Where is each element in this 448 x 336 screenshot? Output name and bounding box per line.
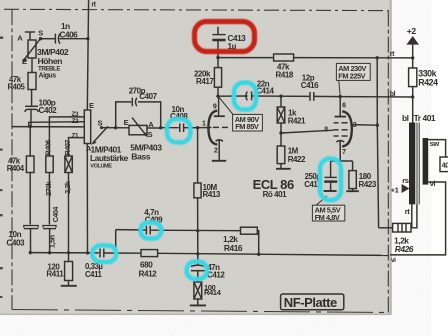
- potentiometer P402: [25, 31, 35, 33]
- arrow +1: [402, 184, 410, 193]
- wire to C408: [161, 127, 179, 129]
- capacitor C408: [179, 124, 181, 133]
- svg-text:Höhen: Höhen: [38, 56, 63, 66]
- wire input from frame to P401 lower tap: [12, 126, 84, 128]
- svg-text:2: 2: [214, 147, 218, 154]
- svg-text:bl: bl: [402, 113, 409, 123]
- svg-text:E: E: [89, 101, 94, 110]
- pentode cathode pin 7: [336, 141, 344, 142]
- wire anode row to C414: [218, 95, 248, 97]
- ground bar below C417: [324, 190, 337, 192]
- wiper arrow of P403: [132, 118, 146, 136]
- svg-text:R404: R404: [7, 164, 25, 173]
- pentode envelope: [342, 111, 352, 146]
- node R421/R422 junction: [279, 131, 282, 134]
- highlight cyan around C408: [167, 119, 190, 142]
- ground bar below R414: [190, 304, 206, 306]
- supply arrow +2: [406, 36, 419, 45]
- svg-text:Aigus: Aigus: [39, 72, 57, 79]
- node C402/R404 junction: [29, 125, 32, 128]
- svg-text:R412: R412: [139, 270, 158, 279]
- svg-text:R418: R418: [276, 71, 294, 80]
- resistor R405: [28, 73, 36, 90]
- svg-text:2,2k: 2,2k: [63, 181, 72, 194]
- svg-text:R411: R411: [46, 269, 64, 278]
- ground bar triode cathode: [212, 160, 226, 162]
- wire C416 to pentode anode node: [314, 95, 340, 97]
- svg-text:R417: R417: [196, 77, 214, 86]
- resistor R421 (x-type): [280, 96, 282, 107]
- svg-text:+2: +2: [407, 26, 417, 36]
- svg-text:E: E: [22, 57, 27, 66]
- resistor R423: [352, 161, 354, 171]
- svg-text:S: S: [148, 130, 153, 139]
- pentode grid g1 dashes: [334, 129, 339, 131]
- resistor R424: [412, 58, 414, 68]
- resistor R407 (x-type): [65, 156, 72, 173]
- highlight cyan around C412: [187, 262, 207, 279]
- potentiometer P403 body: [129, 125, 147, 134]
- svg-text:S: S: [98, 119, 103, 128]
- svg-text:Lautstärke: Lautstärke: [90, 153, 129, 163]
- wire wiper to bass network: [101, 127, 129, 129]
- label box NF-Platte: [281, 294, 344, 310]
- svg-text:Z2: Z2: [72, 118, 79, 125]
- capacitor C413: [217, 27, 219, 35]
- svg-text:R421: R421: [288, 117, 306, 126]
- svg-text:R407: R407: [63, 140, 72, 156]
- wire to R426: [379, 227, 393, 229]
- svg-text:C411: C411: [85, 270, 103, 279]
- bus line bottom: [30, 252, 99, 254]
- highlight cyan around C417: [320, 159, 341, 201]
- value box AM5,5V FM4,8V: [312, 196, 344, 222]
- ground bar below R423: [346, 190, 358, 192]
- potentiometer P401 body: [84, 110, 90, 144]
- svg-text:R405: R405: [8, 83, 26, 92]
- wire cathode tee: [331, 160, 353, 162]
- svg-text:C404: C404: [51, 207, 60, 223]
- svg-text:9: 9: [213, 104, 217, 111]
- svg-text:rs: rs: [402, 176, 409, 185]
- capacitor C414: [246, 92, 247, 101]
- feedback line vertical: [376, 58, 378, 125]
- capacitor C417: [330, 161, 332, 177]
- wire top row R418: [218, 57, 274, 59]
- svg-text:R423: R423: [359, 180, 377, 189]
- wire junction to C416: [281, 95, 309, 97]
- triode envelope: [208, 111, 217, 145]
- resistor R404: [26, 156, 34, 173]
- wire screen grid pin 3: [351, 124, 378, 127]
- highlight cyan around C411: [92, 245, 116, 262]
- capacitor C409: [145, 226, 147, 235]
- resistor R406: [46, 156, 53, 173]
- svg-text:FM 85V: FM 85V: [235, 122, 259, 131]
- resistor R412: [141, 250, 158, 257]
- svg-text:FM 225V: FM 225V: [338, 71, 365, 80]
- node R421 top junction: [279, 95, 282, 98]
- svg-text:C414: C414: [256, 86, 274, 95]
- svg-text:+1: +1: [391, 185, 400, 194]
- svg-text:R426: R426: [395, 244, 414, 254]
- svg-text:1: 1: [202, 121, 206, 128]
- wire bass loop top right side: [138, 102, 161, 128]
- capacitor C406: [54, 34, 56, 44]
- resistor R418: [274, 54, 294, 61]
- wire R404 column: [29, 127, 31, 156]
- svg-text:bl: bl: [390, 91, 396, 98]
- triode cathode pin 2: [216, 140, 223, 141]
- wire grid of triode: [198, 127, 212, 129]
- resistor R426 (striped): [393, 223, 411, 232]
- capacitor C412: [197, 254, 199, 265]
- svg-text:Tr 401: Tr 401: [414, 113, 436, 123]
- transformer Tr401 primary winding: [409, 123, 415, 205]
- node R413/C409 line crossing: [196, 229, 199, 232]
- node bus R413 junction: [196, 252, 199, 255]
- wire P402 to R405: [31, 58, 33, 73]
- triode grid dashes: [213, 126, 219, 128]
- speaker box 4 ohm: [440, 157, 448, 172]
- wire R413 column: [197, 128, 199, 183]
- node anode junction: [216, 95, 219, 98]
- wire bass loop left+top: [116, 102, 132, 128]
- node bass loop left junction: [114, 126, 117, 129]
- capacitor C403: [24, 226, 38, 228]
- svg-text:rt: rt: [405, 207, 411, 216]
- svg-text:vi: vi: [430, 179, 436, 188]
- wire C414 to junction: [252, 95, 281, 97]
- speaker wire sw: [428, 140, 445, 157]
- svg-text:Z1: Z1: [72, 133, 79, 140]
- wire to transformer primary: [412, 97, 414, 123]
- capacitor C416: [309, 92, 311, 101]
- wire tap Z3 of P401: [49, 117, 84, 156]
- svg-text:C402: C402: [39, 106, 58, 115]
- svg-text:sw: sw: [430, 139, 440, 148]
- node bus junctions: [29, 251, 32, 254]
- transformer core lines: [416, 123, 418, 205]
- svg-text:E: E: [124, 118, 129, 127]
- wiper arrow of P401: [93, 126, 108, 142]
- wire R405 to C402: [31, 90, 33, 106]
- svg-text:8: 8: [324, 127, 328, 134]
- svg-text:S: S: [38, 28, 43, 37]
- highlight red around C413: [195, 22, 255, 52]
- value box AM230V FM225V: [336, 63, 370, 96]
- wire R426 to transformer: [411, 204, 417, 227]
- capacitor C402: [25, 105, 38, 107]
- node screen junction: [376, 124, 379, 127]
- svg-text:C407: C407: [139, 92, 157, 101]
- svg-text:FM 4,8V: FM 4,8V: [315, 213, 340, 222]
- resistor R416: [241, 227, 258, 234]
- value box AM90V FM85V: [219, 97, 263, 131]
- svg-text:C416: C416: [301, 81, 319, 90]
- svg-text:3: 3: [353, 122, 357, 129]
- triode anode pin 9: [214, 115, 225, 117]
- wire C408 to grid: [184, 127, 198, 129]
- wire C409 row: [116, 229, 146, 231]
- highlight cyan around C409: [141, 223, 162, 239]
- node R416 bus junction: [257, 253, 260, 256]
- wire branch to C409 line: [115, 230, 117, 253]
- node R417 top junction: [216, 56, 219, 59]
- svg-text:6: 6: [342, 103, 346, 110]
- wire tap Z1 of P401: [69, 138, 85, 156]
- svg-text:vi: vi: [391, 257, 396, 264]
- svg-text:NF-Platte: NF-Platte: [284, 295, 337, 310]
- wire transformer primary bottom: [411, 204, 413, 227]
- resistor R413: [194, 183, 201, 198]
- capacitor C407: [131, 98, 133, 107]
- highlight cyan around C414: [234, 83, 256, 110]
- svg-text:1,5n: 1,5n: [48, 235, 57, 248]
- svg-text:R413: R413: [203, 190, 221, 199]
- node supply junction: [411, 56, 414, 59]
- resistor R422: [280, 133, 282, 146]
- svg-text:R416: R416: [224, 243, 243, 253]
- resistor R414 (x-type): [194, 282, 202, 299]
- pentode grid g2 dashes: [334, 122, 339, 124]
- wire S of P402 to C406: [41, 38, 56, 40]
- svg-text:R424: R424: [418, 77, 438, 87]
- capacitor C411: [99, 249, 101, 258]
- ground bar below R411: [61, 285, 77, 287]
- ground bar below R422: [276, 168, 291, 170]
- resistor R411: [68, 253, 70, 262]
- svg-text:C406: C406: [60, 30, 79, 39]
- node bass loop right junction: [159, 126, 162, 129]
- wire tap Z2 of P401: [29, 122, 85, 127]
- svg-text:C403: C403: [6, 238, 25, 247]
- svg-text:4Ω: 4Ω: [442, 162, 448, 169]
- svg-text:R422: R422: [288, 155, 306, 164]
- svg-text:270k: 270k: [44, 181, 53, 196]
- speaker wire vi: [390, 182, 446, 255]
- transformer secondary winding: [423, 138, 429, 185]
- svg-text:VOLUME: VOLUME: [90, 163, 112, 169]
- svg-text:C412: C412: [207, 270, 225, 279]
- resistor R417: [217, 58, 219, 68]
- node grid junction R413: [196, 126, 199, 129]
- svg-text:Bass: Bass: [131, 152, 150, 162]
- svg-text:7: 7: [342, 149, 346, 156]
- pentode anode pin 6: [335, 116, 346, 118]
- svg-text:680: 680: [140, 261, 153, 270]
- wire to pentode grid pin 8: [281, 130, 334, 133]
- node rt input line: [87, 0, 88, 110]
- capacitor C404: [43, 226, 56, 228]
- svg-text:R406: R406: [44, 140, 53, 156]
- node R424 bottom junction: [411, 95, 414, 98]
- node pentode anode junction: [339, 95, 342, 98]
- svg-text:R414: R414: [204, 288, 222, 297]
- wire to supply node: [377, 57, 413, 59]
- node feedback line top: [376, 56, 379, 59]
- wire anode node to supply node: [340, 96, 413, 98]
- svg-text:Rö 401: Rö 401: [263, 190, 288, 199]
- pentode grid g3 dashes: [334, 135, 339, 137]
